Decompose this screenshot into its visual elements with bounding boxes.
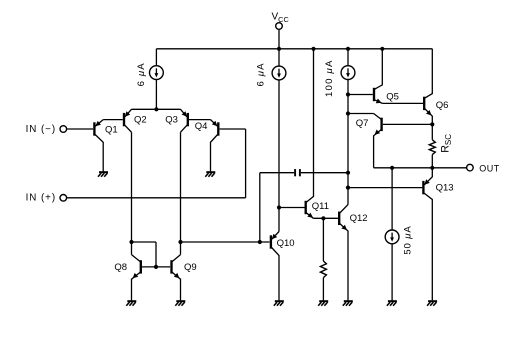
node Q9 collector junction [178, 240, 182, 244]
wire Q4 base right [220, 128, 246, 130]
ground under R1 [319, 300, 328, 302]
node VCC rail junction [277, 47, 281, 51]
ground under Q10 [275, 300, 284, 302]
wire 100uA vertical [347, 79, 349, 205]
wire cap left segment [260, 172, 294, 174]
svg-text:50 μA: 50 μA [403, 225, 414, 254]
transistor Q8 [140, 260, 142, 273]
wire Q3 collector down to Q9 [180, 132, 182, 254]
wire output line [374, 167, 467, 169]
svg-text:Q4: Q4 [195, 121, 208, 132]
transistor Q7 [380, 118, 382, 131]
svg-text:Q12: Q12 [350, 213, 368, 224]
svg-text:Q10: Q10 [277, 238, 295, 249]
resistor RSC [429, 140, 435, 155]
wire 6uA-2 down to Q10 collector node [278, 80, 280, 232]
transistor Q4 [217, 122, 219, 135]
node cap Q10 base junction [258, 240, 262, 244]
current source I3 100uA [341, 66, 355, 80]
transistor Q10 [270, 235, 272, 248]
ground under Q1 [99, 171, 108, 173]
label RSC [440, 134, 453, 153]
transistor Q13 [422, 181, 424, 194]
transistor Q6 [423, 97, 425, 110]
node Q8 collector junction [129, 240, 133, 244]
svg-text:6 μA: 6 μA [256, 62, 267, 86]
svg-text:OUT: OUT [479, 164, 499, 174]
wire Q8 diode link [132, 241, 157, 243]
wire cap right segment [301, 172, 348, 174]
transistor Q12 [338, 212, 340, 225]
wire Q7 collector [348, 113, 374, 115]
node resistor junction [321, 216, 325, 220]
wire 50uA to ground [391, 244, 393, 301]
wire Q8-Q9 base link [142, 266, 170, 268]
svg-text:100 μA: 100 μA [324, 59, 335, 97]
svg-text:Q1: Q1 [105, 125, 118, 136]
wire Q5 emitter to Q6 base [382, 102, 423, 104]
svg-text:Q2: Q2 [134, 115, 147, 126]
wire 6uA-1 drop [155, 49, 157, 66]
svg-text:Q9: Q9 [184, 262, 197, 273]
wire resistor top [322, 218, 324, 261]
terminal IN(-) [60, 126, 67, 133]
svg-text:IN (−): IN (−) [26, 124, 56, 135]
wire Q3 base to Q4 emitter [189, 119, 211, 121]
terminal OUT [467, 164, 474, 171]
label 100uA [324, 59, 335, 97]
node 100uA rail junction [346, 47, 350, 51]
svg-text:Q6: Q6 [436, 100, 449, 111]
node 50uA junction [390, 166, 394, 170]
node Q5 base junction [346, 92, 350, 96]
wire Q1 emitter to Q2 base [103, 119, 123, 121]
label 6uA I1 [136, 62, 147, 86]
svg-text:6 μA: 6 μA [136, 62, 147, 86]
transistor Q11 [305, 201, 307, 214]
current source I2 6uA [272, 66, 286, 80]
node Rsc output junction [430, 166, 434, 170]
wire Q5 base [348, 94, 373, 96]
ground under 50uA [388, 300, 397, 302]
wire input pair tail [132, 108, 181, 110]
terminal IN(+) [60, 195, 67, 202]
svg-text:Q11: Q11 [312, 201, 329, 212]
wire IN(-) to Q1 base [67, 128, 94, 130]
ground under Q13 [428, 300, 437, 302]
wire Q10 collector to Q11 base [279, 207, 305, 209]
node Q7 base junction [430, 122, 434, 126]
resistor R1 [320, 261, 326, 278]
ground under Q12 [344, 300, 353, 302]
wire 50uA drop [391, 168, 393, 230]
node cap right junction [346, 171, 350, 175]
svg-text:Q8: Q8 [114, 262, 127, 273]
capacitor Cc [294, 169, 296, 176]
transistor Q2 [123, 113, 125, 126]
node Q13 base junction [346, 186, 350, 190]
node Q7 collector junction [346, 111, 350, 115]
wire Q2 collector down to Q8 [131, 132, 133, 254]
ground under Q9 [176, 300, 185, 302]
svg-text:Q3: Q3 [165, 115, 178, 126]
wire cap to Q10 base [259, 173, 261, 242]
ground under Q4 [206, 171, 215, 173]
wire Q11 emitter to Q12 base [313, 217, 338, 219]
wire resistor bottom [322, 278, 324, 301]
node Q11 collector rail junction [311, 47, 315, 51]
label 6uA I2 [256, 62, 267, 86]
transistor Q3 [187, 113, 189, 126]
wire Q4 base down to IN(+) line [245, 129, 247, 198]
label 50uA [403, 225, 414, 254]
terminal VCC [276, 23, 283, 30]
wire IN(+) line [67, 197, 246, 199]
node Q8-Q9 base junction [154, 265, 158, 269]
node Q10 collector junction [277, 205, 281, 209]
svg-text:IN (+): IN (+) [26, 193, 56, 204]
wire Q7 base [383, 123, 433, 125]
node Q5 collector rail junction [380, 47, 384, 51]
transistor Q9 [170, 260, 172, 273]
wire VCC top rail [156, 48, 432, 50]
wire 100uA drop [347, 49, 349, 66]
current source I1 6uA [150, 66, 164, 80]
svg-text:Q5: Q5 [386, 91, 399, 102]
transistor Q1 [93, 122, 95, 135]
node tail junction [154, 107, 158, 111]
wire 6uA-1 to tail [155, 79, 157, 109]
current source I4 50uA [385, 230, 399, 244]
wire Q9 collector to Q10 base [181, 241, 270, 243]
wire Rsc to out line [431, 155, 433, 168]
svg-text:Q7: Q7 [356, 118, 369, 129]
wire 6uA-2 drop [278, 49, 280, 67]
ground under Q8 [127, 300, 136, 302]
transistor Q5 [373, 88, 375, 101]
svg-text:Q13: Q13 [436, 182, 454, 193]
wire Q13 base [348, 187, 422, 189]
